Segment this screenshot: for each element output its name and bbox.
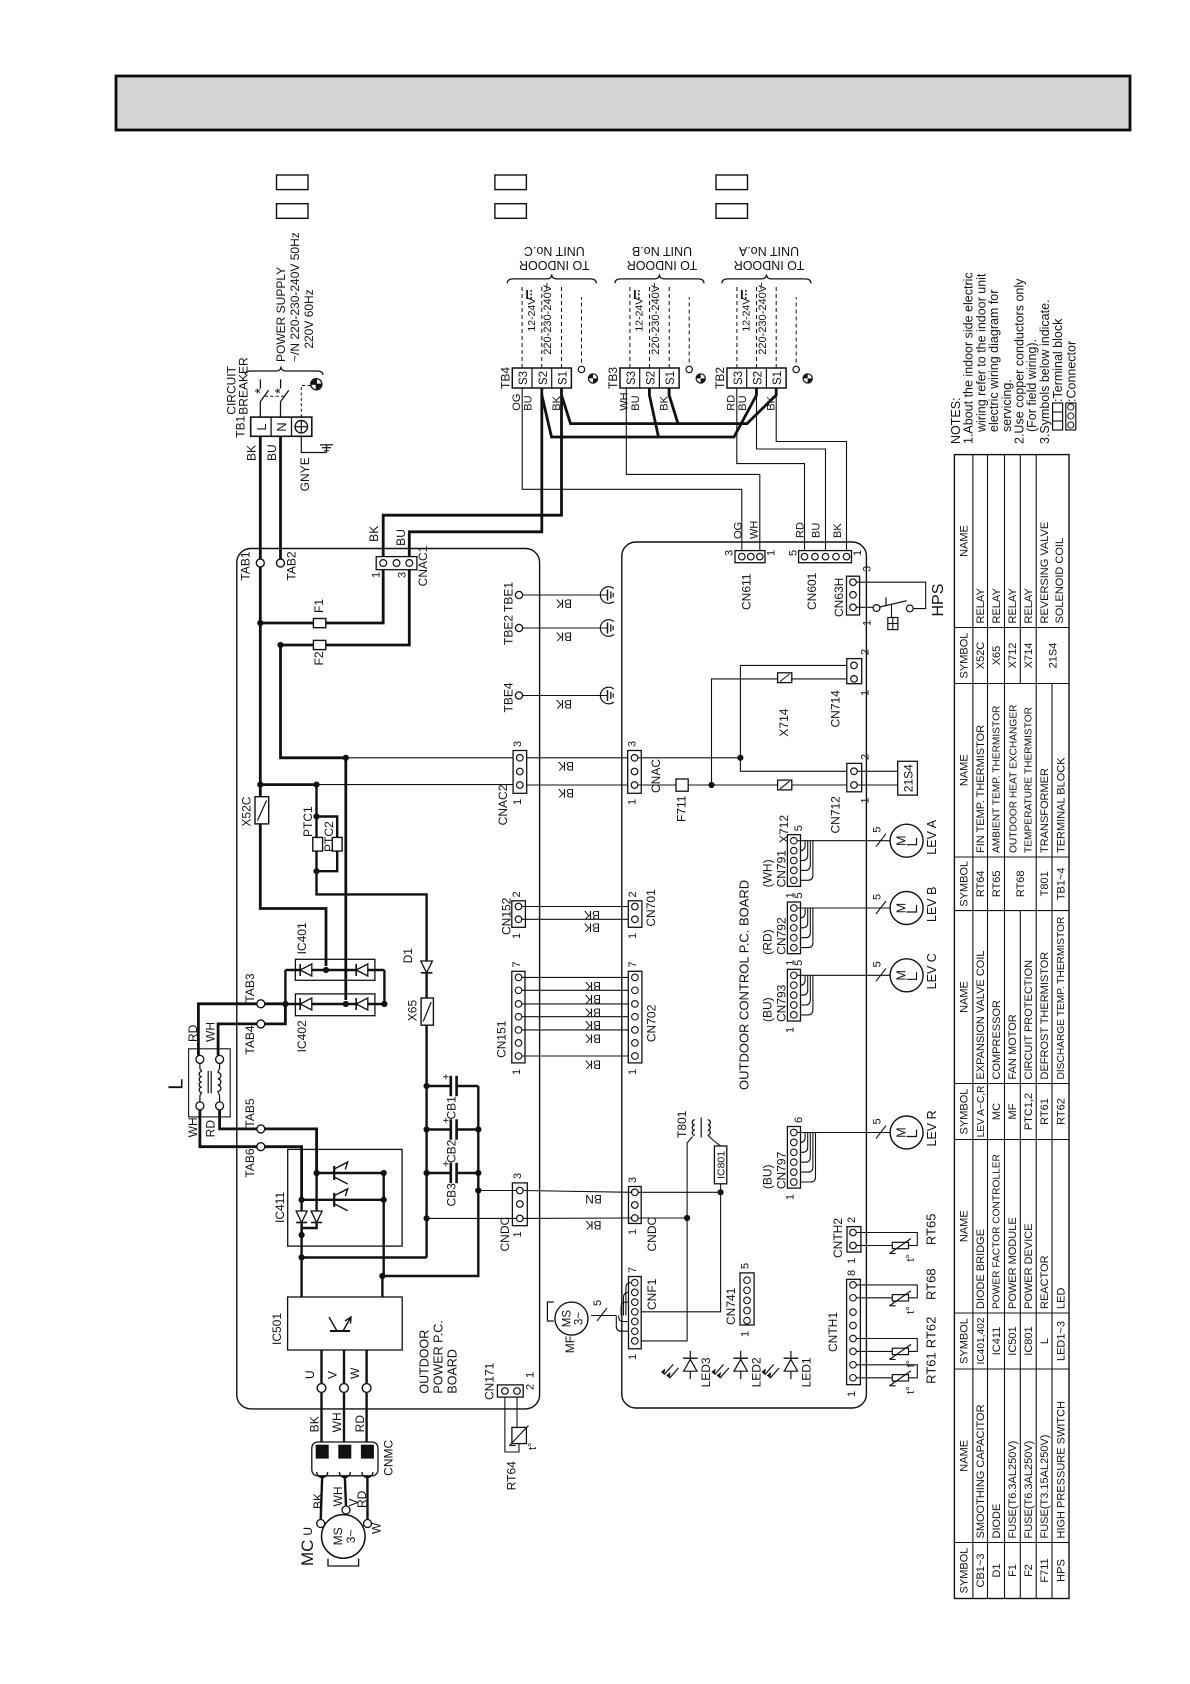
svg-text:BK: BK [556,596,572,610]
expansion valve motor LEV C [890,959,923,992]
wire F711 node up to X714 [712,679,778,785]
svg-text:1: 1 [627,933,639,939]
wire junction to CNAC2 pin3 [346,757,513,759]
svg-text:1: 1 [846,1391,858,1397]
svg-text:W: W [370,1522,384,1534]
T801 core [700,1118,702,1138]
wire TAB2-branch to IC402 [344,758,347,1000]
svg-text:CN611: CN611 [740,573,754,610]
svg-text:21S4: 21S4 [902,764,916,792]
relay X65 [421,998,433,1025]
svg-text:+: + [440,1161,452,1167]
svg-text:D1: D1 [991,1563,1003,1577]
svg-text:~: ~ [539,282,554,290]
svg-text:HIGH PRESSURE SWITCH: HIGH PRESSURE SWITCH [1055,1401,1067,1539]
svg-text:BOARD: BOARD [445,1349,459,1393]
HPS pressure element [891,605,893,618]
terminal block TB2 [727,368,786,388]
thermistor symbol [892,1375,908,1381]
svg-text:(BU): (BU) [761,1164,775,1189]
svg-text:CNMC: CNMC [382,1439,396,1475]
wires CN712 to 21S4 [857,770,897,772]
diode D1 [425,954,427,998]
svg-text:1: 1 [859,797,871,803]
svg-text:FUSE(T6.3AL250V): FUSE(T6.3AL250V) [1023,1441,1035,1539]
ground symbol TBE2 [607,623,609,634]
svg-text:POWER P.C.: POWER P.C. [431,1320,445,1393]
indicator LED2 [740,1351,742,1379]
circuit breaker pole N [280,402,282,418]
svg-text:S1: S1 [665,371,677,385]
MC mounting bracket [328,1559,359,1567]
IC411 transistor 1 [333,1166,335,1180]
reactor L terminals [196,1055,204,1063]
svg-text:MF: MF [1007,1103,1019,1119]
wire PTC to D1 line [317,871,427,954]
model name box 1b [277,204,309,219]
wire CNAC2 to CNAC (BK x2) [527,757,628,759]
IC402 diode left [300,998,312,1010]
wire IC801 to node [720,1184,722,1193]
svg-text:3: 3 [861,566,873,572]
thermistor wiring [856,1285,917,1298]
svg-text:BK: BK [308,1416,322,1432]
terminal TAB1 [256,559,264,567]
svg-text:~: ~ [754,282,769,290]
fuse F711 [638,784,676,786]
svg-text:LEV R: LEV R [925,1110,939,1146]
svg-text:CNAC: CNAC [649,759,663,793]
wire X52C to IC401 [260,824,326,966]
svg-text:CN712: CN712 [829,796,843,834]
svg-text:TAB6: TAB6 [243,1148,257,1177]
outdoor power pc board outline [237,549,540,1409]
connector CNDC power side [512,1183,527,1226]
svg-text:BU: BU [522,395,534,410]
svg-text:MF: MF [563,1336,577,1353]
wire CNDC pin1 to T801 node [638,1217,687,1219]
svg-text:SMOOTHING CAPACITOR: SMOOTHING CAPACITOR [975,1404,987,1538]
svg-text:~: ~ [647,282,662,290]
svg-text:BK: BK [556,697,572,711]
terminal TAB5 [257,1125,265,1133]
svg-text:BK: BK [551,395,563,410]
terminal TAB4 [257,1020,265,1028]
svg-text:1: 1 [784,1027,796,1033]
svg-text:OG: OG [511,394,523,411]
T801 secondary [708,1120,711,1135]
svg-text:BK: BK [245,445,259,461]
wire OG TB4-S3 to CN611 [522,388,742,551]
svg-text:RT64: RT64 [505,1461,519,1490]
svg-text:WH: WH [618,392,630,410]
svg-text:AMBIENT TEMP. THERMISTOR: AMBIENT TEMP. THERMISTOR [992,706,1003,853]
model name box 3b [716,204,748,219]
svg-text:BK: BK [585,1218,601,1232]
relay X52C [257,781,263,787]
svg-text:T801: T801 [1039,871,1051,896]
wire TAB5 into IC411 [265,1129,317,1173]
connector CN63H [847,576,860,615]
svg-text:2: 2 [846,1217,858,1223]
wire F711 node to X712 [712,784,778,786]
svg-text:TERMINAL BLOCK: TERMINAL BLOCK [1055,757,1067,853]
svg-text:NAME: NAME [959,981,971,1013]
CB right bus [382,1086,478,1276]
svg-text:F2: F2 [312,651,326,665]
svg-text:2: 2 [859,649,871,655]
svg-text:DIODE BRIDGE: DIODE BRIDGE [975,1229,987,1309]
svg-text:TAB1: TAB1 [239,551,253,580]
connector CNAC [628,751,642,794]
IC501 outputs U V W [320,1350,322,1442]
reactor leads [200,1063,202,1071]
ground symbol TBE1 [607,590,609,601]
thermistor RT64 [505,1397,519,1452]
svg-text:PTC1,2: PTC1,2 [1023,1093,1035,1130]
earth wire GNYE [301,436,326,452]
svg-text:REVERSING VALVE: REVERSING VALVE [1039,522,1051,624]
wire X712 to CN712 pin1 [792,784,847,786]
svg-text:LED: LED [1055,1288,1067,1309]
model name box 2a [495,175,527,190]
svg-text:1: 1 [852,550,864,556]
svg-text:1: 1 [511,1069,523,1075]
svg-text:t°: t° [905,1306,917,1313]
wire X65 to CB bus [425,1025,427,1257]
wire TAB1 to F1 junction [259,567,262,797]
svg-text:LED2: LED2 [750,1357,764,1387]
svg-text:POWER DEVICE: POWER DEVICE [1023,1223,1035,1309]
svg-text:X65: X65 [991,646,1003,666]
svg-text:TB1~4: TB1~4 [1055,867,1067,900]
svg-text:NAME: NAME [959,525,971,557]
svg-text:RD: RD [353,1415,367,1433]
svg-text:GNYE: GNYE [298,457,312,491]
svg-text:RT61: RT61 [1039,1098,1051,1125]
svg-text:WH: WH [330,1412,344,1432]
TB2 earth mark [803,374,812,383]
svg-text:N: N [274,422,289,431]
svg-text:CNDC: CNDC [645,1217,659,1252]
TB2 dashed field wires [736,285,738,368]
svg-text:RELAY: RELAY [975,588,987,624]
CN793 wire bundle [797,974,890,976]
svg-text:TB4: TB4 [499,367,513,389]
CN797 wire bundle [797,1132,890,1134]
svg-text:1: 1 [512,799,524,805]
power factor controller IC411 [288,1149,402,1246]
IC411 output node to IC501 [300,1235,302,1258]
svg-text:IC401,402: IC401,402 [976,1317,987,1364]
svg-text:TO INDOOR: TO INDOOR [627,258,698,272]
svg-text:t°: t° [905,1386,917,1393]
svg-text:NAME: NAME [959,1210,971,1242]
IC401 diode left [300,964,312,976]
connector CNMC [312,1442,378,1476]
svg-text:WH: WH [186,1117,200,1137]
CN797 slash 5 [876,1126,886,1139]
svg-text:LED1: LED1 [800,1357,814,1387]
svg-text:T801: T801 [675,1110,689,1138]
svg-text:MC: MC [298,1540,317,1566]
thermistor wiring [856,1339,917,1352]
svg-text:(RD): (RD) [761,929,775,954]
svg-text:TO INDOOR: TO INDOOR [519,258,590,272]
wires CN151 to CN702 (BK) [522,976,632,978]
svg-text::Connector: :Connector [1064,341,1078,402]
svg-text:RD: RD [204,1120,218,1138]
svg-text:U: U [303,1370,317,1379]
connector CNAC1 [376,557,417,570]
thermistor wiring [856,1233,917,1246]
svg-text:CNDC: CNDC [498,1217,512,1252]
svg-text:S3: S3 [626,371,638,385]
svg-text:S3: S3 [518,371,530,385]
svg-text:~/N 220-230-240V 50Hz: ~/N 220-230-240V 50Hz [288,232,302,362]
svg-text:UNIT No.A: UNIT No.A [738,244,799,258]
model name box 1a [277,175,309,190]
terminal TAB6 [257,1143,265,1151]
svg-text:3: 3 [626,741,638,747]
connector CN701 [628,901,642,928]
svg-text:CB1: CB1 [445,1096,459,1120]
wire TAB6 into IC411 [265,1147,302,1200]
svg-text:TBE1: TBE1 [502,582,516,612]
wire TB4-S1 down (BK) [383,388,561,560]
svg-text:BK: BK [585,1058,601,1072]
svg-text:2: 2 [627,891,639,897]
wire TAB2 branch down to CNAC2 [281,645,346,758]
svg-text:2: 2 [859,754,871,760]
connector CN797 [787,1127,800,1189]
svg-text:IC501: IC501 [1007,1326,1019,1355]
connector CN792 [787,902,800,954]
svg-text:M: M [894,970,908,980]
wire L to TAB6 (WH) [200,1110,257,1147]
thermistor symbol [892,1295,908,1301]
svg-text:RD: RD [794,522,806,538]
indicator LED1 [790,1351,792,1379]
svg-text:CN701: CN701 [644,889,658,927]
svg-text:*: * [272,388,289,394]
svg-text:HPS: HPS [1055,1559,1067,1582]
HPS contacts [873,605,880,612]
wire L to TAB5 (RD) [220,1110,257,1129]
wire TAB4 to L (WH) [218,1024,257,1056]
svg-text:BK: BK [556,629,572,643]
svg-text:OG: OG [732,522,744,539]
svg-text:FUSE(T3.15AL250V): FUSE(T3.15AL250V) [1039,1435,1051,1539]
terminal TBE4 [515,692,522,699]
svg-text:220-230-240V: 220-230-240V [757,284,769,354]
power supply brace [245,367,323,376]
svg-text:LEV C: LEV C [925,953,939,989]
terminal TAB3 [257,1000,265,1008]
svg-text:CIRCUIT PROTECTION: CIRCUIT PROTECTION [1023,960,1035,1080]
reactor L box [189,1049,231,1117]
TB2 brace [722,274,811,283]
svg-text:CN714: CN714 [829,690,843,728]
TB1 earth dashed lead [301,386,310,418]
capacitor CB3 [427,1172,451,1174]
wire CNDC-CNDC BN [523,1191,631,1193]
svg-text:5: 5 [793,825,805,831]
svg-text:2: 2 [524,1384,536,1390]
svg-text:CNTH1: CNTH1 [826,1312,840,1352]
svg-text:21S4: 21S4 [1047,643,1059,669]
connector CN712 [847,763,862,791]
TB4 brace [507,274,596,283]
svg-text:RT62: RT62 [924,1317,939,1349]
compressor motor MC [322,1515,366,1559]
svg-text:CNF1: CNF1 [645,1278,659,1310]
svg-text:X65: X65 [406,1000,420,1022]
svg-text:3: 3 [512,1173,524,1179]
svg-text:LEV B: LEV B [925,887,939,922]
svg-text:OUTDOOR CONTROL P.C. BOARD: OUTDOOR CONTROL P.C. BOARD [737,880,752,1090]
circuit protection PTC1 [315,785,317,838]
svg-text:BK: BK [832,523,844,538]
svg-text:F1: F1 [1007,1564,1019,1577]
power module IC501 [288,1297,403,1350]
IC401 right leg [383,970,385,1004]
svg-text:TBE2: TBE2 [502,615,516,645]
svg-text:V: V [326,1371,340,1379]
capacitor CB1 [427,1085,451,1087]
TB1 earth screw terminal [295,420,307,432]
svg-text:TAB5: TAB5 [243,1098,257,1127]
svg-text:RT62: RT62 [1055,1098,1067,1125]
svg-text:BK: BK [585,1005,601,1019]
reactor L windings [199,1072,202,1093]
svg-text:IC801: IC801 [715,1151,727,1179]
svg-text:EXPANSION VALVE COIL: EXPANSION VALVE COIL [975,951,987,1080]
wire CNAC pin3 node [638,757,741,759]
connector CN611 [735,551,765,563]
thermistor symbol [892,1242,908,1248]
wires CNMC to compressor [321,1476,323,1520]
connector CN793 [787,969,800,1021]
wire TAB2 to F2 junction [277,642,283,648]
connector CN791 [787,835,800,887]
svg-text:S2: S2 [538,371,550,385]
wire T801 node down to CNF1 pin1 [638,1218,687,1341]
wire WH TB3-S3 to CN611 [626,388,760,551]
svg-text:CN793: CN793 [775,984,789,1022]
wire X52C branch to CNAC2 pin1 [260,783,316,786]
capacitor CB2 [427,1128,451,1130]
connector CN151 [512,971,525,1063]
svg-text:FUSE(T6.3AL250V): FUSE(T6.3AL250V) [1007,1441,1019,1539]
svg-text:BU: BU [737,395,749,410]
TB3 earth mark [696,374,705,383]
indicator LED3 [689,1351,691,1379]
CN791 wire bundle [797,840,890,842]
svg-text:RT68: RT68 [1015,870,1027,897]
TB4 earth mark [588,374,597,383]
IC402 diode right [356,998,368,1010]
svg-text:S2: S2 [646,371,658,385]
svg-text:SYMBOL: SYMBOL [959,861,971,907]
IC411 diode 1 [300,1200,302,1235]
terminal TBE1 [515,591,522,598]
svg-text:220-230-240V: 220-230-240V [650,284,662,354]
svg-text:CN63H: CN63H [832,578,846,617]
svg-text:BU: BU [394,529,408,546]
svg-text:IC402: IC402 [295,1020,309,1052]
svg-text:F1: F1 [312,599,326,613]
notes connector symbol [1066,403,1076,430]
TB3 field earth circle [686,366,692,372]
svg-text:UNIT No.B: UNIT No.B [632,244,692,258]
ground symbol [326,445,328,453]
svg-text:t°: t° [527,1443,539,1450]
wire CB bus to CNDC pin1 [427,1217,517,1219]
svg-text:MS: MS [331,1527,345,1545]
svg-text:OUTDOOR: OUTDOOR [417,1330,431,1394]
CN792 slash 5 [876,901,886,914]
wire RD TB2-S3 to CN601 [737,388,805,551]
svg-text:BU: BU [810,523,822,538]
svg-text:CB1~3: CB1~3 [975,1554,987,1588]
svg-text:F711: F711 [675,795,689,822]
svg-text:WH: WH [204,1022,218,1042]
fuse F2 [281,644,313,647]
S2 bus [542,388,757,437]
terminal block TB1 [251,417,312,436]
wire node to CN714 pin2 [740,665,846,757]
svg-text:TAB2: TAB2 [285,551,299,580]
svg-text:3~: 3~ [574,1312,586,1325]
svg-text:t°: t° [905,1254,917,1261]
svg-text:POWER FACTOR CONTROLLER: POWER FACTOR CONTROLLER [992,1154,1003,1309]
page title bar [116,76,1130,130]
diode bridge IC401 [295,959,375,980]
svg-text:TEMPERATURE THERMISTOR: TEMPERATURE THERMISTOR [1023,707,1034,853]
connector CNTH1 [847,1279,861,1384]
svg-text:CN171: CN171 [483,1362,497,1400]
svg-text:BK: BK [658,395,670,410]
svg-text:L: L [254,423,269,430]
svg-text:5: 5 [871,961,883,967]
svg-text:IC401: IC401 [295,922,309,954]
svg-text:CNTH2: CNTH2 [831,1218,845,1258]
MF bracket [547,1302,553,1321]
high pressure switch HPS wiring [856,582,925,608]
svg-text:5: 5 [871,1118,883,1124]
svg-text:MC: MC [991,1103,1003,1120]
connector CN714 [847,659,862,684]
svg-text:BK: BK [558,786,574,800]
svg-text:UNIT No.C: UNIT No.C [524,244,585,258]
svg-text:L: L [1039,1338,1051,1344]
svg-text:M: M [894,903,908,913]
svg-text:RELAY: RELAY [991,588,1003,624]
svg-text:NAME: NAME [959,1440,971,1472]
svg-text:1: 1 [846,1258,858,1264]
thermistor symbol [892,1348,908,1354]
fan motor MF [555,1302,588,1335]
wire node down to CNF1 pin4 [638,1192,721,1312]
svg-text:X712: X712 [1007,643,1019,669]
svg-text:SYMBOL: SYMBOL [959,633,971,679]
svg-text:BK: BK [584,908,600,922]
TB3-S1 tap [669,388,678,424]
svg-text:D1: D1 [401,948,415,964]
svg-text:1: 1 [524,1372,536,1378]
svg-text:RT61: RT61 [924,1352,939,1384]
